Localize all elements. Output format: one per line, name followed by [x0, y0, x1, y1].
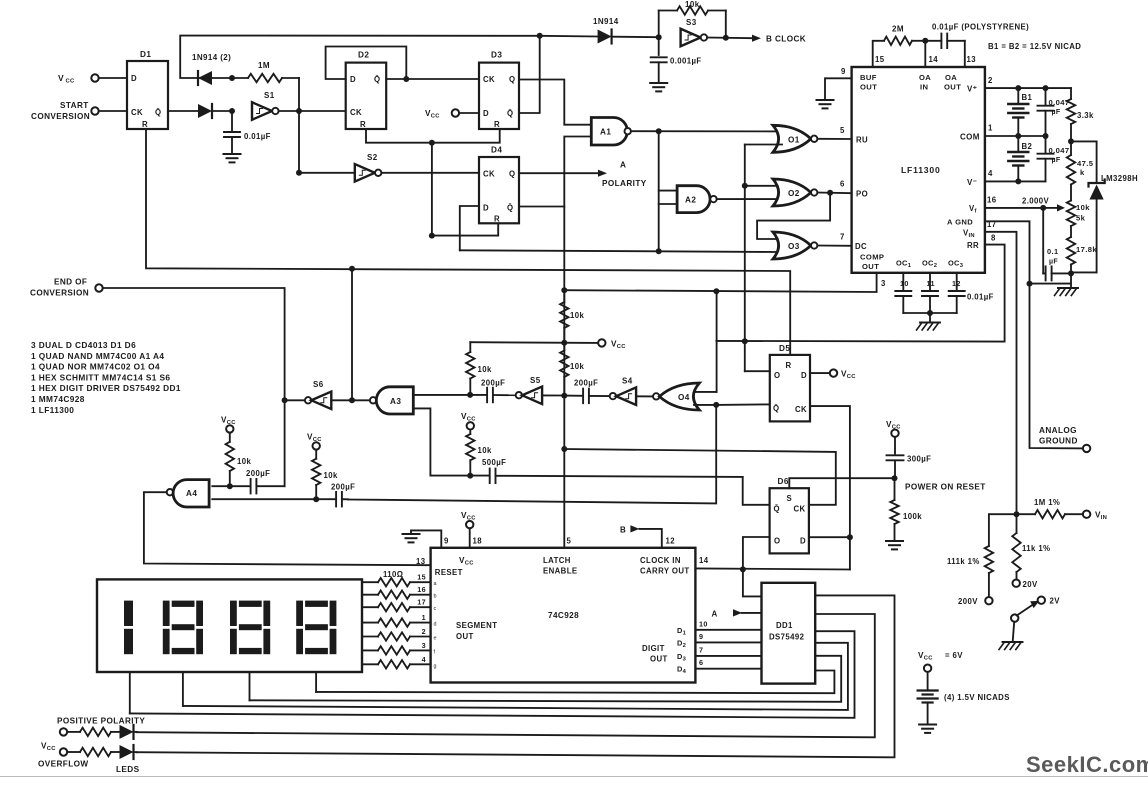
svg-text:OUT: OUT	[650, 655, 668, 664]
digit 1 segments	[124, 601, 133, 626]
svg-text:0.047: 0.047	[1049, 146, 1070, 155]
svg-text:D: D	[131, 74, 137, 83]
node VCC above second 10k	[313, 442, 320, 449]
svg-text:1: 1	[422, 613, 426, 622]
svg-text:10k: 10k	[570, 362, 584, 371]
svg-text:O4: O4	[678, 393, 690, 402]
svg-text:D: D	[800, 537, 806, 546]
feedback resistor 10k over S3	[659, 6, 726, 38]
svg-text:Q: Q	[509, 75, 515, 84]
svg-text:1 QUAD NOR MM74C02 O1 O4: 1 QUAD NOR MM74C02 O1 O4	[31, 362, 160, 372]
pin 14 lead	[924, 41, 926, 67]
svg-text:1 HEX SCHMITT MM74C14 S1 S6: 1 HEX SCHMITT MM74C14 S1 S6	[31, 372, 170, 382]
svg-text:LATCH: LATCH	[543, 556, 571, 565]
wire D2.R to rail	[366, 129, 500, 143]
svg-text:1M: 1M	[258, 61, 270, 70]
svg-text:f: f	[434, 649, 436, 655]
svg-text:1 HEX DIGIT DRIVER DS75492 DD1: 1 HEX DIGIT DRIVER DS75492 DD1	[31, 383, 181, 393]
ground below OC caps	[929, 313, 931, 323]
svg-text:14: 14	[699, 556, 709, 565]
svg-text:CK: CK	[794, 505, 806, 514]
svg-text:GROUND: GROUND	[1039, 437, 1078, 446]
svg-text:74C928: 74C928	[548, 611, 579, 620]
node ANALOG GROUND	[1083, 445, 1090, 452]
wire D3.Q to A1 input	[519, 80, 591, 125]
pin 9 lead and ground	[825, 78, 852, 99]
wire O4 upper input from comp line	[694, 391, 717, 393]
resistor 111k 1%	[989, 514, 1017, 546]
svg-text:16: 16	[417, 585, 426, 594]
svg-text:CK: CK	[131, 108, 143, 117]
svg-text:D: D	[350, 75, 356, 84]
wire display digit select 1	[129, 672, 131, 713]
svg-text:Q̄: Q̄	[155, 108, 161, 117]
battery B2	[1017, 136, 1019, 151]
node 2V	[1038, 597, 1045, 604]
ground below pot chain	[1070, 273, 1072, 288]
junction A4 upper input node	[227, 483, 233, 489]
resistor 1M 1%	[1017, 510, 1083, 518]
wire digit out D2	[695, 641, 761, 643]
svg-text:200µF: 200µF	[574, 379, 598, 388]
wire D6.D to D5 CK column	[809, 536, 850, 538]
wire VCC to D1.D	[99, 77, 127, 79]
svg-text:START: START	[60, 101, 89, 110]
wire O4 node to D5.Qbar	[716, 403, 770, 406]
nor gate O4 (facing left)	[653, 393, 659, 399]
svg-text:OVERFLOW: OVERFLOW	[38, 760, 89, 769]
svg-text:OUT: OUT	[944, 83, 961, 92]
OC3 capacitor	[956, 273, 958, 290]
svg-text:POSITIVE POLARITY: POSITIVE POLARITY	[57, 717, 145, 726]
svg-text:5: 5	[840, 126, 845, 135]
svg-text:16: 16	[987, 196, 997, 205]
resistor 17.8k	[1067, 237, 1075, 273]
wire DD1 output 3 wrap digit bus 1	[130, 631, 855, 718]
wire DD1 output 4 wrap digit bus 2	[183, 643, 848, 710]
svg-text:17.8k: 17.8k	[1076, 245, 1097, 254]
svg-text:A2: A2	[685, 196, 696, 205]
svg-text:300µF: 300µF	[907, 455, 931, 464]
wire D6.Q loop to DD1	[743, 537, 770, 596]
switch selector	[1011, 614, 1018, 621]
svg-text:RR: RR	[967, 241, 979, 250]
svg-text:20V: 20V	[1023, 580, 1038, 589]
wire A2 lower input	[659, 203, 677, 205]
resistor 10k lower (to S4 node)	[560, 343, 568, 396]
resistor 1M	[232, 74, 299, 82]
wire S6 input from A3	[331, 399, 370, 401]
svg-text:(4) 1.5V NICADS: (4) 1.5V NICADS	[944, 693, 1010, 702]
svg-text:A1: A1	[600, 128, 611, 137]
wire D6.S to power-on-reset	[789, 478, 894, 488]
diode 1N914 upper (pointing left)	[198, 71, 212, 85]
svg-text:CONVERSION: CONVERSION	[30, 289, 89, 298]
svg-text:4: 4	[988, 169, 993, 178]
svg-text:10: 10	[699, 619, 708, 628]
junction D6.Q / carry	[740, 566, 746, 572]
svg-text:0.01µF: 0.01µF	[967, 293, 994, 302]
wire Vf pin16 with 2.000V arrow	[985, 207, 1043, 209]
wire A1 out down to A2 inputs and O3 line	[658, 131, 660, 251]
resistor 10k (A4 lower branch)	[312, 450, 320, 500]
svg-text:B CLOCK: B CLOCK	[766, 35, 806, 44]
svg-text:2: 2	[988, 76, 993, 85]
wire D5.D to VCC	[810, 372, 830, 374]
svg-text:10k: 10k	[237, 457, 251, 466]
svg-text:110Ω: 110Ω	[383, 570, 403, 579]
svg-text:7: 7	[840, 233, 845, 242]
wire D3.Qbar to top rail	[519, 36, 540, 113]
svg-text:a: a	[434, 581, 437, 587]
wire START CONVERSION to D1.CK	[99, 110, 127, 112]
wire and arrow B CLOCK	[707, 37, 752, 40]
svg-text:Q̄: Q̄	[774, 505, 780, 514]
ground below 0.001uF	[650, 83, 667, 91]
capacitor 300uF	[887, 437, 904, 478]
svg-text:10: 10	[900, 279, 909, 288]
svg-text:RU: RU	[856, 136, 868, 145]
schmitt inverter S4 (facing left)	[610, 393, 616, 399]
svg-text:1: 1	[988, 124, 993, 133]
capacitor 200uF (S4 chain)	[564, 389, 609, 404]
svg-text:LEDS: LEDS	[116, 765, 140, 774]
svg-text:SEGMENT: SEGMENT	[456, 621, 497, 630]
svg-text:17: 17	[417, 598, 426, 607]
svg-text:Q̄: Q̄	[374, 75, 380, 84]
svg-text:15: 15	[875, 55, 885, 64]
svg-text:D2: D2	[358, 51, 369, 60]
svg-text:S3: S3	[686, 18, 697, 27]
junction reset R rail	[429, 140, 435, 146]
svg-text:1 QUAD NAND MM74C00 A1 A4: 1 QUAD NAND MM74C00 A1 A4	[31, 351, 164, 361]
svg-text:2M: 2M	[892, 25, 904, 34]
resistor 100k	[890, 478, 898, 541]
resistor 10k (200uF upper branch)	[466, 342, 474, 378]
svg-text:5: 5	[567, 537, 572, 546]
junction 3.3k bottom	[1068, 138, 1074, 144]
svg-text:B: B	[620, 526, 626, 535]
resistor 110 ohm segment d	[362, 618, 431, 626]
LED overflow	[120, 745, 134, 759]
svg-text:10k: 10k	[478, 365, 492, 374]
wire S1 to D2.CK	[279, 110, 346, 112]
digit 8 third	[305, 601, 328, 607]
svg-text:BUF: BUF	[860, 73, 877, 82]
svg-text:DIGIT: DIGIT	[642, 644, 665, 653]
capacitor 0.047uF upper	[1038, 88, 1054, 136]
pot 10k 5k	[1067, 201, 1075, 238]
comparator output line pin3	[564, 290, 877, 292]
wire D1.R reset rail to D5.R	[146, 129, 790, 355]
resistor 10k (500uF branch)	[466, 430, 474, 476]
svg-text:O: O	[774, 537, 780, 546]
svg-text:B2: B2	[1022, 142, 1033, 151]
svg-text:IN: IN	[920, 83, 928, 92]
svg-text:k: k	[1080, 168, 1085, 177]
svg-text:Q̄: Q̄	[507, 204, 513, 213]
resistor 10k upper (to comp line)	[560, 290, 568, 343]
svg-text:S: S	[787, 494, 793, 503]
svg-text:CLOCK IN: CLOCK IN	[640, 556, 681, 565]
svg-text:O3: O3	[788, 242, 800, 251]
node VCC to D3.D	[452, 109, 459, 116]
junction A GND branch	[1027, 281, 1033, 287]
wire V+ pin2 rail	[985, 87, 1071, 89]
long vertical node line	[563, 173, 565, 548]
svg-text:OA: OA	[919, 73, 931, 82]
resistor overflow	[67, 748, 119, 756]
svg-text:4: 4	[422, 655, 426, 664]
wire DD1 output 6 wrap digit bus 4	[316, 671, 834, 694]
resistor 110 ohm segment f	[362, 646, 431, 654]
wire S4 input from O4 output	[636, 395, 653, 397]
wire COM pin1 rail	[985, 135, 1046, 137]
wire D5.Q from O column	[745, 370, 770, 372]
wire R rail down to D4.R	[432, 143, 498, 236]
wire D4.Qbar to long vertical	[519, 206, 564, 208]
svg-text:200µF: 200µF	[246, 469, 270, 478]
svg-text:PO: PO	[856, 190, 868, 199]
OC1 capacitor	[902, 273, 904, 290]
resistor 110 ohm segment g	[362, 660, 431, 668]
junction S3 input	[656, 34, 662, 40]
resistor 47.5k	[1067, 141, 1075, 200]
svg-text:200V: 200V	[958, 597, 978, 606]
capacitor 200uF (A4 lower)	[212, 492, 348, 507]
capacitor 500uF	[470, 469, 743, 484]
wire OC cap bus	[903, 312, 956, 314]
wire O3 to LF11300 pin7	[817, 245, 851, 247]
VCC rail between 10k pullups	[470, 341, 598, 344]
wire S6 output	[285, 399, 305, 401]
pin 12 lead with B arrow	[639, 529, 661, 548]
nand gate A1	[591, 118, 627, 146]
svg-text:R: R	[142, 120, 148, 129]
svg-text:2.000V: 2.000V	[1022, 197, 1050, 206]
svg-text:OA: OA	[945, 73, 957, 82]
battery 4x1.5V nicads	[927, 672, 929, 690]
wire V- pin4 rail	[985, 180, 1046, 182]
display module box	[97, 579, 362, 672]
svg-text:D: D	[801, 371, 807, 380]
svg-text:O: O	[774, 371, 780, 380]
svg-text:A4: A4	[186, 489, 197, 498]
wire latch-enable rail to D6.CK	[564, 449, 836, 505]
svg-text:CK: CK	[483, 170, 495, 179]
svg-text:200µF: 200µF	[481, 379, 505, 388]
svg-text:LF11300: LF11300	[901, 165, 941, 175]
svg-text:8: 8	[991, 234, 996, 243]
svg-text:111k 1%: 111k 1%	[947, 557, 980, 566]
svg-text:2V: 2V	[1050, 597, 1061, 606]
node 20V	[1013, 580, 1020, 587]
wire D4.Q branch to A1 lower input	[564, 137, 591, 174]
svg-text:B1: B1	[1022, 93, 1033, 102]
junction S6 output node	[282, 397, 288, 403]
resistor 110 ohm segment e	[362, 632, 431, 640]
svg-text:10k: 10k	[570, 311, 584, 320]
junction at S5 input node	[561, 393, 567, 399]
svg-text:S2: S2	[367, 153, 378, 162]
svg-text:LM3298H: LM3298H	[1101, 174, 1138, 183]
svg-text:A GND: A GND	[947, 218, 973, 227]
svg-text:CK: CK	[795, 405, 807, 414]
svg-text:15: 15	[417, 573, 426, 582]
svg-text:B1 = B2 = 12.5V NICAD: B1 = B2 = 12.5V NICAD	[988, 42, 1081, 51]
wire D2 feedback loop Qbar to D	[326, 47, 407, 80]
resistor 3.3k	[1067, 88, 1075, 141]
svg-text:OUT: OUT	[862, 262, 879, 271]
resistor 110 ohm segment a	[362, 578, 431, 586]
svg-text:D: D	[483, 204, 489, 213]
svg-text:CARRY OUT: CARRY OUT	[640, 567, 690, 576]
svg-text:D3: D3	[491, 51, 502, 60]
wire DD1 output 1 wrap to overflow LED	[137, 595, 895, 757]
wire display digit select 4	[315, 672, 317, 692]
wire O2 upper input	[745, 185, 782, 187]
pin 15 lead	[873, 41, 884, 67]
wire end of conversion to S6 output	[103, 288, 285, 486]
capacitor 0.1uF	[1043, 208, 1045, 274]
svg-text:14: 14	[929, 55, 939, 64]
svg-text:R: R	[494, 215, 500, 224]
nor gate O3	[773, 232, 811, 259]
wire D4.D from O3 input line	[460, 206, 479, 250]
diode 1N914 lower	[198, 104, 212, 118]
svg-text:e: e	[434, 636, 437, 642]
svg-text:S5: S5	[530, 376, 541, 385]
capacitor 0.01uF at S1 input	[224, 111, 240, 154]
nor gate O1	[773, 125, 811, 152]
flip-flop D2	[346, 63, 387, 129]
wire O1 lower input	[745, 144, 782, 146]
wire A2 upper input	[659, 190, 677, 192]
svg-text:10k: 10k	[685, 0, 700, 9]
node VIN	[1083, 511, 1090, 518]
wire D4.Q to A POLARITY	[519, 172, 598, 174]
wire VIN pin17	[985, 232, 1017, 514]
schmitt inverter S5 (facing left)	[516, 392, 522, 398]
svg-text:D: D	[483, 109, 489, 118]
wire digit out D4	[695, 668, 761, 670]
wire A2 out to O2 input	[717, 198, 781, 200]
junction top rail	[537, 33, 543, 39]
ground below 100k	[886, 541, 903, 549]
junction 17.8k bottom	[1068, 270, 1074, 276]
node START CONVERSION input	[91, 107, 98, 114]
svg-text:47.5: 47.5	[1077, 159, 1094, 168]
svg-text:S4: S4	[622, 377, 633, 386]
flip-flop D1	[127, 61, 168, 129]
wire DD1 output 2 wrap to polarity LED	[137, 614, 875, 737]
schmitt inverter S1	[252, 102, 272, 120]
svg-text:1N914 (2): 1N914 (2)	[192, 53, 231, 62]
junction VIN divider	[1014, 511, 1020, 517]
nand gate A3 (facing left)	[370, 397, 376, 403]
node END OF CONVERSION	[95, 284, 102, 291]
svg-text:DC: DC	[855, 242, 867, 251]
svg-text:Q̄: Q̄	[507, 109, 513, 118]
svg-text:V: V	[58, 73, 64, 83]
svg-text:R: R	[786, 361, 792, 370]
svg-text:12: 12	[666, 537, 676, 546]
OC2 capacitor	[929, 273, 931, 290]
wire to D6.Qbar	[743, 477, 770, 505]
svg-text:0.01µF (POLYSTYRENE): 0.01µF (POLYSTYRENE)	[932, 23, 1029, 32]
flip-flop D4	[479, 157, 519, 223]
svg-text:OUT: OUT	[456, 632, 474, 641]
wire A3 lower input to 500uF node	[413, 408, 470, 475]
wire display digit select 3	[249, 672, 251, 700]
capacitor 0.01uF polystyrene	[925, 34, 965, 49]
wire top feedback rail	[180, 36, 597, 79]
svg-text:9: 9	[699, 632, 703, 641]
node VCC mid rail	[598, 339, 605, 346]
node VCC input to D1	[91, 74, 98, 81]
svg-text:12: 12	[952, 279, 961, 288]
svg-text:10k: 10k	[324, 471, 338, 480]
wire digit out D1	[695, 629, 761, 631]
svg-text:3: 3	[422, 641, 426, 650]
wire O3 input line	[460, 250, 781, 252]
svg-text:0.1: 0.1	[1047, 247, 1058, 256]
node VCC power-on-reset	[891, 430, 898, 437]
svg-text:A3: A3	[390, 397, 401, 406]
capacitor 0.047uF lower	[1038, 136, 1054, 181]
pin 13 lead	[964, 41, 966, 67]
svg-text:RESET: RESET	[435, 568, 463, 577]
capacitor 200uF (A4 upper)	[212, 479, 284, 494]
schmitt inverter S2	[299, 172, 355, 174]
ground below 0.01uF	[224, 154, 241, 162]
svg-text:Q̄: Q̄	[773, 404, 779, 413]
svg-text:11: 11	[927, 279, 935, 288]
node VCC 6V	[924, 665, 931, 672]
pin 14 carry out wire	[695, 568, 850, 569]
wire D5.CK down	[810, 406, 850, 569]
svg-text:D1: D1	[140, 50, 151, 59]
svg-text:0.001µF: 0.001µF	[670, 57, 702, 66]
svg-text:V⁻: V⁻	[967, 178, 977, 187]
resistor 2M	[884, 37, 925, 45]
wire D1.Qbar to diode	[168, 110, 198, 112]
wire display digit select 2	[182, 672, 184, 706]
svg-text:POWER ON RESET: POWER ON RESET	[905, 483, 986, 492]
nor gate O2	[773, 179, 811, 206]
capacitor 0.001uF	[651, 37, 667, 83]
svg-text:c: c	[434, 606, 437, 612]
resistor 11k 1%	[1012, 514, 1020, 579]
wire S5 input	[542, 394, 564, 396]
junction at C1 top	[229, 108, 235, 114]
svg-text:SeekIC.com: SeekIC.com	[1026, 752, 1148, 777]
nand gate A2	[677, 186, 710, 213]
pin 3 comp out lead	[876, 273, 878, 291]
svg-text:µF: µF	[1049, 259, 1058, 266]
junction A4 lower input node	[313, 496, 319, 502]
flip-flop D5	[770, 355, 810, 422]
svg-text:13: 13	[416, 557, 426, 566]
junction reset-rail branch to S6 input	[349, 397, 355, 403]
wire A GND pin	[985, 221, 1087, 448]
svg-text:9: 9	[841, 67, 846, 76]
svg-text:O1: O1	[788, 136, 800, 145]
wire RR pin8	[716, 245, 1004, 342]
wire DD1 output 5 wrap digit bus 3	[250, 656, 842, 702]
svg-text:b: b	[434, 594, 437, 600]
svg-text:d: d	[434, 622, 437, 628]
